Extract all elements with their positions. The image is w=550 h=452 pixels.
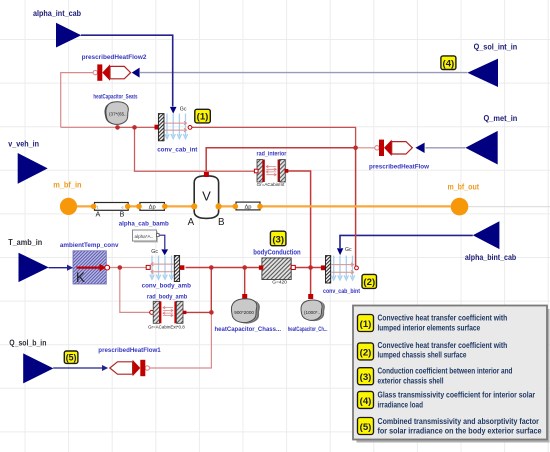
conduction bodyConduction bbox=[253, 248, 300, 286]
chip (4) bbox=[441, 56, 456, 70]
wire seats heat line bbox=[61, 126, 155, 128]
svg-text:A: A bbox=[96, 210, 101, 219]
wire Q_met_in to prescribedHeatFlow (lavender) bbox=[425, 147, 465, 149]
legend chip (3) bbox=[358, 368, 374, 385]
chip (3) bbox=[270, 231, 286, 246]
legend box bbox=[353, 306, 550, 443]
svg-text:conv_body_amb: conv_body_amb bbox=[142, 282, 191, 289]
wire conv_cab_int.fluid to air node bbox=[192, 127, 356, 147]
svg-text:ambientTemp_conv: ambientTemp_conv bbox=[60, 242, 119, 249]
heat capacitor heatCapacitor_Chassis bbox=[215, 294, 282, 333]
fluid sink m_bf_out bbox=[448, 182, 480, 215]
volume vessel V bbox=[188, 172, 225, 228]
chip (1) bbox=[195, 109, 211, 123]
svg-text:(3): (3) bbox=[360, 372, 372, 383]
svg-text:lumped interior elements surfa: lumped interior elements surface bbox=[378, 323, 481, 332]
input connector alpha_bint_cab bbox=[465, 221, 517, 262]
pressure drop dp2 bbox=[233, 202, 263, 210]
svg-text:900*2000: 900*2000 bbox=[234, 310, 254, 315]
svg-text:alpha*A..: alpha*A.. bbox=[135, 234, 154, 239]
svg-text:T_amb_in: T_amb_in bbox=[8, 238, 42, 247]
junction ambient node bbox=[118, 265, 123, 270]
svg-text:Gc: Gc bbox=[345, 247, 352, 253]
svg-text:irradiance load: irradiance load bbox=[378, 400, 424, 409]
wire air node to prescribedHeatFlow port (pale) bbox=[356, 147, 375, 149]
svg-text:heatCapacitor_Ch...: heatCapacitor_Ch... bbox=[288, 326, 328, 333]
svg-text:prescribedHeatFlow1: prescribedHeatFlow1 bbox=[98, 347, 161, 354]
wire exterior node down to rad_body_amb.B bbox=[186, 268, 211, 313]
svg-text:m_bf_in: m_bf_in bbox=[53, 180, 82, 189]
svg-text:lumped chassis shell surface: lumped chassis shell surface bbox=[378, 351, 467, 360]
junction rad_body_amb output node bbox=[209, 310, 214, 315]
svg-text:A: A bbox=[188, 217, 195, 228]
wire ambientTemp_conv.port to conv_body_amb.fluid (pale) bbox=[109, 267, 146, 269]
radiation rad_body_amb bbox=[147, 294, 187, 331]
svg-text:v_veh_in: v_veh_in bbox=[8, 140, 39, 149]
orifice box with A B bbox=[91, 203, 131, 219]
svg-text:Gr=ACabinInt: Gr=ACabinInt bbox=[257, 182, 285, 188]
wire ambient node down to rad_body_amb.A (pale) bbox=[120, 268, 150, 313]
junction exterior shell node at rad_body_amb branch bbox=[209, 265, 214, 270]
svg-text:prescribedHeatFlow2: prescribedHeatFlow2 bbox=[82, 54, 147, 61]
wire Q_sol_b_in to prescribedHeatFlow1 bbox=[53, 365, 108, 371]
svg-text:(37*(65..: (37*(65.. bbox=[109, 111, 127, 116]
legend chip (5) bbox=[358, 418, 374, 435]
svg-text:heatCapacitor_Seats: heatCapacitor_Seats bbox=[93, 95, 138, 101]
wire alpha_bint_cab to conv_cab_bint Gc bbox=[340, 235, 473, 248]
junction seats node to rad_interior branch bbox=[132, 125, 137, 130]
svg-text:Convective heat transfer coeff: Convective heat transfer coefficient wit… bbox=[378, 341, 508, 350]
svg-text:rad_body_amb: rad_body_amb bbox=[147, 294, 187, 301]
convection conv_cab_int bbox=[155, 106, 199, 153]
label alpha_cab_bamb bbox=[119, 220, 169, 227]
heat source prescribedHeatFlow2 bbox=[82, 54, 147, 81]
junction interior shell node bbox=[308, 265, 313, 270]
input connector v_veh_in bbox=[8, 140, 47, 184]
gain block alpha*A bbox=[133, 230, 160, 243]
svg-text:conv_cab_bint: conv_cab_bint bbox=[323, 288, 361, 295]
svg-text:(2): (2) bbox=[360, 347, 372, 358]
svg-text:rad_interior: rad_interior bbox=[257, 151, 287, 158]
wire air node down to conv_cab_bint.fluid bbox=[355, 148, 357, 266]
svg-text:B: B bbox=[120, 210, 125, 219]
svg-text:Q_met_in: Q_met_in bbox=[484, 114, 518, 123]
wire exterior node down to heatCapacitor_Chassis bbox=[244, 268, 246, 295]
svg-text:(4): (4) bbox=[360, 396, 372, 407]
radiation rad_interior bbox=[254, 151, 288, 188]
wire prescribedHeatFlow2 to seats node (pale red) bbox=[61, 73, 93, 128]
svg-text:Convective heat transfer coeff: Convective heat transfer coefficient wit… bbox=[378, 314, 508, 323]
svg-text:alpha_int_cab: alpha_int_cab bbox=[33, 9, 81, 18]
svg-text:exterior chassis shell: exterior chassis shell bbox=[378, 376, 444, 385]
input connector Q_met_in bbox=[465, 114, 517, 165]
input connector alpha_int_cab bbox=[33, 9, 81, 48]
svg-text:(5): (5) bbox=[66, 353, 77, 363]
svg-text:bodyConduction: bodyConduction bbox=[253, 248, 300, 257]
svg-text:(5): (5) bbox=[360, 422, 372, 433]
svg-text:conv_cab_int: conv_cab_int bbox=[157, 146, 198, 153]
wire alpha_int_cab to conv_cab_int Gc bbox=[81, 35, 173, 106]
prescribed temperature ambientTemp_conv bbox=[60, 242, 119, 285]
heat capacitor heatCapacitor_Ch (interior) bbox=[288, 294, 328, 333]
fluid line m_bf_in to m_bf_out (orange) bbox=[77, 205, 451, 207]
heat source prescribedHeatFlow (Q_met) bbox=[369, 140, 430, 171]
wire T_amb_in to ambientTemp_conv bbox=[49, 265, 74, 271]
svg-text:(4): (4) bbox=[443, 58, 455, 69]
svg-text:heatCapacitor_Chass...: heatCapacitor_Chass... bbox=[215, 326, 282, 333]
input connector Q_sol_b_in bbox=[9, 338, 53, 383]
legend chip (4) bbox=[358, 391, 374, 408]
svg-text:B: B bbox=[218, 217, 225, 228]
svg-text:(3): (3) bbox=[272, 234, 284, 245]
svg-text:Combined transmissivity and ab: Combined transmissivity and absorptivity… bbox=[378, 417, 540, 426]
junction at heatCapacitor_Seats port bbox=[115, 125, 120, 130]
chip (2) bbox=[362, 274, 377, 288]
svg-text:Q_sol_int_in: Q_sol_int_in bbox=[474, 43, 518, 52]
svg-text:m_bf_out: m_bf_out bbox=[448, 182, 480, 191]
fluid source m_bf_in bbox=[53, 180, 82, 215]
svg-text:Δp: Δp bbox=[244, 204, 251, 210]
svg-text:Gc: Gc bbox=[180, 106, 187, 112]
faint fluid continuation after m_bf_out bbox=[468, 206, 550, 208]
input connector Q_sol_int_in bbox=[467, 43, 517, 88]
legend chip (2) bbox=[358, 343, 374, 360]
svg-text:alpha_bint_cab: alpha_bint_cab bbox=[465, 253, 517, 262]
svg-text:Conduction coefficient between: Conduction coefficient between interior … bbox=[378, 367, 513, 376]
svg-text:Glass transmissivity coefficie: Glass transmissivity coefficient for int… bbox=[378, 391, 536, 400]
legend chip (1) bbox=[358, 315, 374, 332]
convection conv_body_amb (mirrored) bbox=[142, 249, 191, 289]
wire air node bus to vessel heat port bbox=[206, 148, 355, 171]
svg-text:V: V bbox=[202, 189, 211, 204]
svg-text:Gc: Gc bbox=[151, 249, 158, 255]
junction cabin air node bbox=[353, 146, 358, 151]
wire rad_interior.B down to interior chassis node and capacitor bbox=[288, 171, 311, 295]
svg-text:prescribedHeatFlow: prescribedHeatFlow bbox=[369, 163, 430, 170]
svg-text:(2): (2) bbox=[363, 277, 375, 288]
svg-text:(1): (1) bbox=[197, 112, 209, 123]
svg-text:K: K bbox=[76, 270, 85, 285]
svg-text:alpha_cab_bamb: alpha_cab_bamb bbox=[119, 220, 169, 227]
svg-text:(1000*..: (1000*.. bbox=[304, 310, 320, 315]
svg-text:Gr=ACabinExt*0.8: Gr=ACabinExt*0.8 bbox=[148, 325, 185, 331]
input connector T_amb_in bbox=[8, 238, 49, 282]
wire Q_sol_int_in to prescribedHeatFlow2 (lavender) bbox=[140, 72, 467, 74]
svg-text:Δp: Δp bbox=[149, 205, 156, 211]
wire alpha_cab_bamb gain to conv_body_amb Gc bbox=[158, 235, 165, 249]
svg-text:for solar irradiance on the bo: for solar irradiance on the body exterio… bbox=[378, 427, 542, 436]
chip (5) bbox=[64, 351, 78, 363]
pressure drop dp1 bbox=[136, 203, 167, 211]
svg-text:(1): (1) bbox=[360, 319, 372, 330]
wire prescribedHeatFlow1 to exterior surface node (pale) bbox=[150, 312, 212, 368]
junction exterior shell node at heatCapacitor_Chassis branch bbox=[242, 265, 247, 270]
svg-text:G=420: G=420 bbox=[272, 279, 287, 285]
heat capacitor heatCapacitor_Seats bbox=[93, 95, 138, 125]
heat source prescribedHeatFlow1 (mirrored) bbox=[98, 347, 161, 376]
convection conv_cab_bint bbox=[321, 247, 361, 295]
wire seats node down to rad_interior.A bbox=[135, 127, 255, 171]
svg-text:Q_sol_b_in: Q_sol_b_in bbox=[9, 338, 46, 347]
wire exterior chassis bus conv_body_amb.solid to conv_cab_bint.solid bbox=[186, 267, 322, 269]
